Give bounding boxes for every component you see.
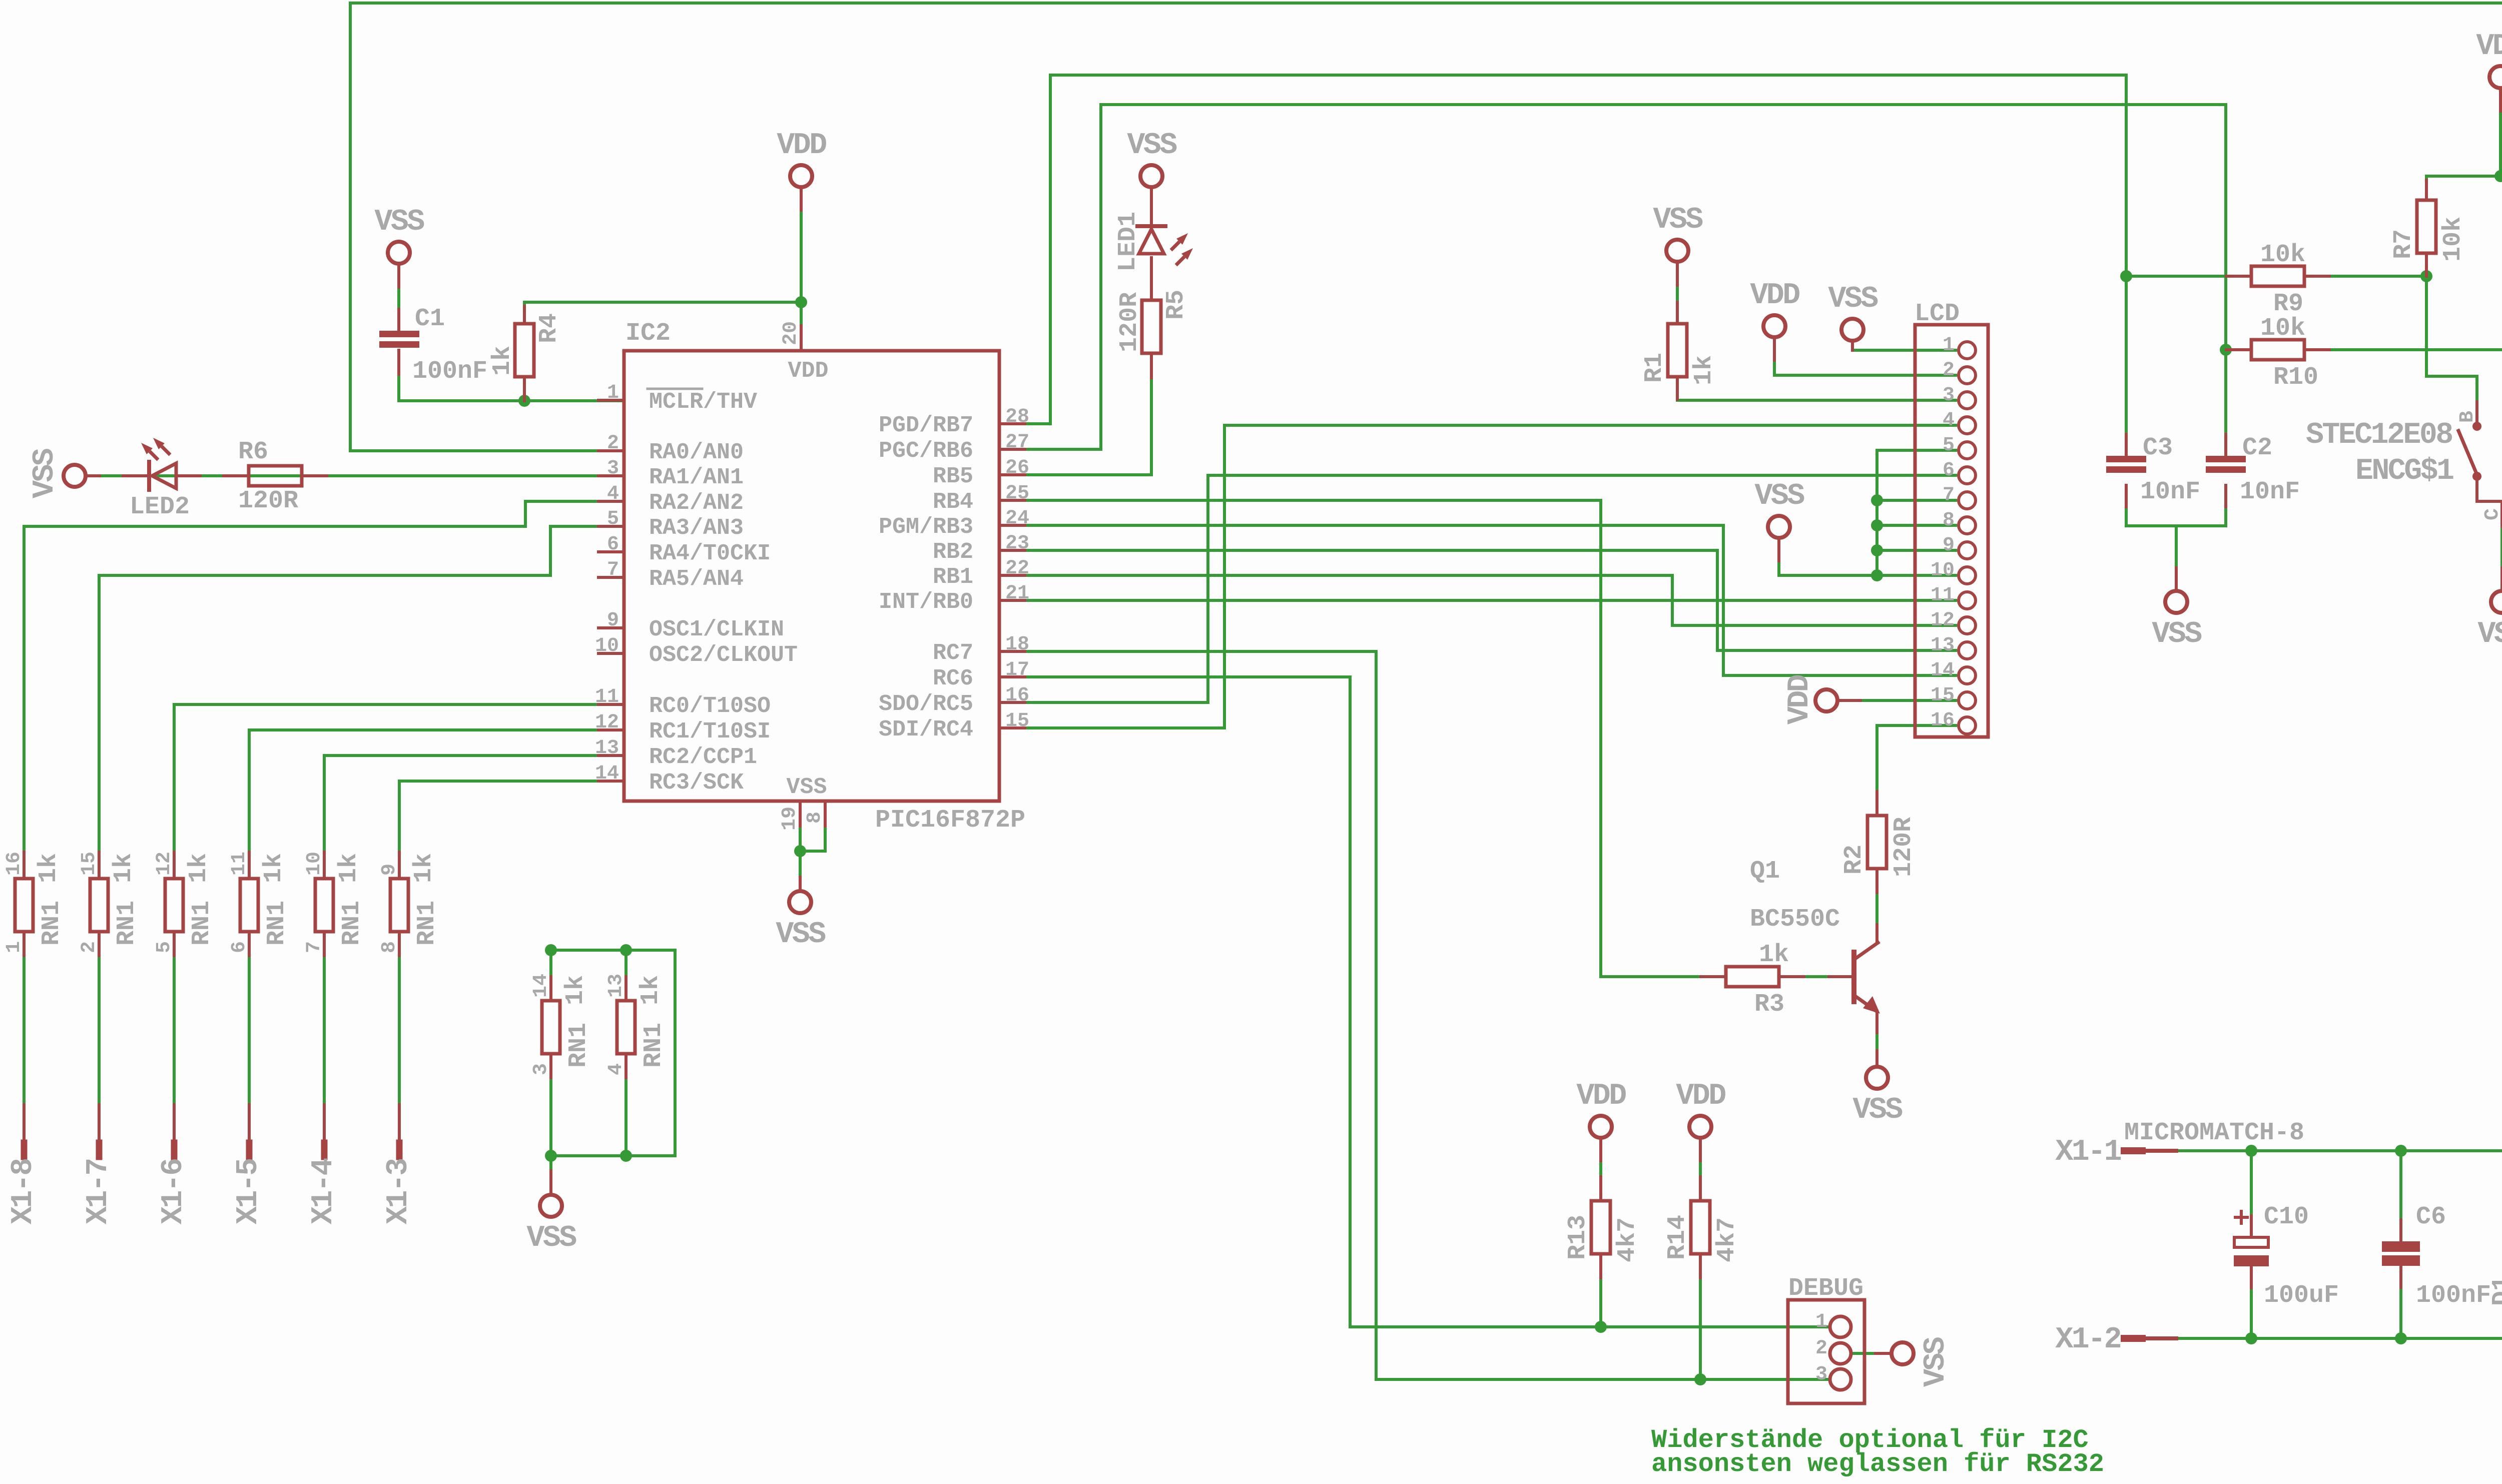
IC2 left pin stubs [598,399,624,402]
wire VSS to LCD pins 5-10 net [1779,540,1877,575]
wire R3 to Q1 base [1779,975,1851,978]
Q1 collector pin [1875,925,1879,943]
wire pin 23 RB2 to LCD pin 13 [1025,550,1956,650]
svg-text:1k: 1k [488,346,517,376]
R1 bottom pin [1676,377,1679,399]
wire pin 14 RC3 to RN1 pin 9 [399,781,600,879]
R9 left pin [2226,275,2251,278]
svg-text:RA0/AN0: RA0/AN0 [649,440,744,465]
resistor RN1 element 15-2 1k [90,879,108,932]
resistor RN1 element 14-3 1k [542,1001,560,1054]
svg-text:C3: C3 [2143,434,2173,462]
wire R2 to LCD pin 16 [1877,725,1956,792]
svg-text:R2: R2 [1840,845,1868,875]
LED1 emission arrows [1171,242,1179,250]
svg-text:11: 11 [595,686,619,708]
svg-text:RC7: RC7 [933,640,973,666]
junction RN1 3 bottom [545,1150,557,1162]
svg-text:10: 10 [595,635,619,657]
wire ENCG$1 C to VSS [2500,526,2502,589]
svg-text:7: 7 [607,559,619,581]
wire pin 15 SDI/RC4 to LCD pin 4 [1025,425,1956,728]
svg-text:7: 7 [1943,484,1955,507]
wire VDD to LCD pin 2 [1774,339,1956,375]
svg-text:13: 13 [1931,634,1955,657]
svg-text:VSS: VSS [786,775,827,800]
svg-text:4k7: 4k7 [1613,1217,1642,1262]
wire X1-2 VSS rail [2124,1266,2502,1338]
svg-text:1k: 1k [637,975,665,1005]
svg-text:6: 6 [1943,459,1955,482]
VSS pin stub R1 [1676,264,1679,285]
C6 bottom pin [2399,1266,2402,1287]
svg-text:RN1: RN1 [564,1023,593,1068]
svg-text:RC3/SCK: RC3/SCK [649,770,744,796]
junction LCD pin10 [1871,569,1883,581]
wire RN1 3/14 4/13 loop [551,950,675,1193]
svg-text:VDD: VDD [2476,30,2502,64]
svg-text:RA4/T0CKI: RA4/T0CKI [649,541,771,566]
svg-text:15: 15 [1931,684,1955,707]
svg-text:R7: R7 [2389,229,2418,259]
LED LED2 [147,462,151,490]
wire RN1 column 6 to X1 pin [398,932,401,1105]
svg-text:VDD: VDD [1783,675,1817,724]
junction VDD/R4/pin20 [795,296,807,308]
svg-text:PGC/RB6: PGC/RB6 [879,438,973,464]
supply VDD at R7/R8 [2489,66,2502,88]
svg-text:RB5: RB5 [933,464,973,489]
svg-text:VSS: VSS [1127,129,1177,163]
VSS pin stub LED1 [1150,189,1153,210]
resistor RN1 element 12-5 1k [165,879,183,932]
svg-text:RN1: RN1 [188,901,216,946]
resistor R14 4k7 [1691,1201,1710,1254]
Q1 base pin [1829,975,1851,978]
svg-text:6: 6 [228,941,251,953]
wire RN1 column 1 to X1 pin [23,932,26,1105]
svg-text:8: 8 [804,812,826,824]
R6 left pin [224,474,249,477]
LED LED1 [1137,224,1165,228]
svg-text:RN1: RN1 [640,1023,668,1068]
supply VDD at R13 [1590,1116,1612,1138]
svg-text:14: 14 [530,974,552,998]
R7 bottom pin [2425,255,2428,276]
wire to LCD pin 10 [1877,574,1956,577]
svg-text:1k: 1k [1690,355,1718,385]
junction LCD pin8 [1871,519,1883,531]
svg-text:ENCG$1: ENCG$1 [2355,454,2453,488]
svg-text:16: 16 [3,852,26,876]
svg-text:VSS: VSS [776,918,826,952]
wire VDD to R14 [1699,1140,1702,1201]
ENCG$1 common pin C [2500,501,2502,526]
LED1 top pin [1150,203,1153,225]
R3 right pin [1779,975,1804,978]
svg-text:RN1: RN1 [38,901,66,946]
R2 top pin [1875,792,1879,816]
svg-text:1k: 1k [561,975,590,1005]
svg-text:2: 2 [607,432,619,455]
svg-text:1: 1 [607,382,619,404]
junction C6 bottom [2395,1332,2407,1344]
capacitor C2 10nF [2206,456,2246,462]
supply VSS at R1 [1666,240,1688,262]
supply VSS at LCD pin 1 [1841,319,1863,341]
VDD pin stub LCD15 [1839,699,1860,702]
resistor R9 10k [2251,266,2304,286]
VSS pin stub LCD1 [1851,343,1854,350]
svg-text:9: 9 [1943,534,1955,557]
wire pin 17 RC6 to DEBUG pin 1 [1025,677,1829,1327]
svg-text:R14: R14 [1663,1215,1692,1260]
wire pin 22 RB1 to LCD pin 12 [1025,575,1956,625]
VDD pin stub R14 [1699,1140,1702,1161]
resistor R3 1k [1726,967,1779,987]
IC2 MCLR overline [648,388,702,390]
svg-text:120R: 120R [1115,292,1144,352]
svg-text:19: 19 [779,807,801,831]
svg-text:5: 5 [1943,434,1955,457]
R4 bottom pin [523,377,526,401]
resistor RN1 element 10-7 1k [315,879,333,932]
wire pin 26 RB5 to R5/LED1 [1025,354,1151,475]
svg-text:6: 6 [607,533,619,556]
svg-text:VDD: VDD [1576,1079,1626,1113]
resistor R5 120R [1142,300,1161,353]
wire R2 to Q1 collector [1875,869,1879,943]
svg-text:1k: 1k [110,853,138,883]
resistor R4 1k [515,324,534,377]
svg-text:X1-3: X1-3 [382,1159,416,1224]
junction C2/R10 [2220,344,2232,356]
R6 right pin [302,474,327,477]
svg-text:RB2: RB2 [933,539,973,565]
svg-text:VSS: VSS [526,1221,576,1255]
supply VSS at Q1 emitter [1866,1067,1888,1089]
svg-text:RB4: RB4 [933,489,973,515]
C2 top pin [2224,434,2227,457]
VSS pin stub LED2 [88,474,100,477]
wire pin 28 PGD/RB7 to R9/C3 [1025,75,2126,457]
LED2 anode pin [123,474,148,477]
pin 8 stub [824,801,827,826]
junction C10 top [2245,1145,2257,1157]
svg-text:RN1: RN1 [338,901,366,946]
connector LCD pads [1959,342,1976,359]
R9 right pin [2304,275,2329,278]
svg-text:RA2/AN2: RA2/AN2 [649,490,744,516]
junction RN1 4 bottom [620,1150,632,1162]
R13 top pin [1599,1177,1602,1201]
wire C3 net to R9 [2126,275,2226,278]
svg-text:1k: 1k [335,853,363,883]
wire rail to C6 top [2399,1151,2402,1241]
R13 bottom pin [1599,1254,1602,1278]
svg-text:VSS: VSS [28,448,62,498]
connector LCD body [1915,325,1988,737]
R1 top pin [1676,302,1679,324]
switch ENCG$1 STEC12E08 [2472,422,2481,431]
R4 top pin [523,306,526,324]
capacitor C1 100nF [379,331,419,337]
R2 bottom pin [1875,869,1879,893]
svg-text:10nF: 10nF [2240,478,2300,506]
R10 right pin [2304,348,2329,351]
svg-text:14: 14 [595,763,619,785]
ENCG$1 B pin [2475,402,2478,426]
svg-text:16: 16 [1005,684,1029,707]
svg-text:17: 17 [1005,659,1029,681]
svg-text:14: 14 [1931,659,1955,682]
svg-text:VSS: VSS [2152,617,2202,651]
svg-text:26: 26 [1005,457,1029,479]
svg-text:DEBUG: DEBUG [1788,1274,1863,1303]
svg-text:120R: 120R [238,487,298,515]
supply VDD at R14 [1689,1116,1711,1138]
resistor R2 120R [1867,816,1887,869]
connector DEBUG body [1788,1300,1864,1403]
svg-text:R5: R5 [1162,290,1190,320]
svg-text:10k: 10k [2260,241,2305,269]
VSS pin stub DEBUG [1875,1352,1890,1355]
svg-text:ansonsten weglassen für RS232: ansonsten weglassen für RS232 [1651,1449,2104,1479]
wire VSS-LED2-R6 to IC pin 3 [88,474,624,477]
svg-text:20: 20 [780,321,802,345]
svg-text:23: 23 [1005,532,1029,555]
resistor R13 4k7 [1591,1201,1610,1254]
svg-text:VSS: VSS [374,205,424,239]
R5 bottom pin [1150,354,1153,378]
svg-text:8: 8 [378,941,401,953]
svg-text:9: 9 [607,609,619,632]
svg-text:PIC16F872P: PIC16F872P [875,806,1025,835]
LED2 emission arrows [150,451,158,460]
svg-text:1k: 1k [185,853,213,883]
svg-text:RN1: RN1 [113,901,141,946]
svg-text:MCLR/THV: MCLR/THV [649,389,757,415]
junction C10 bottom [2245,1332,2257,1344]
supply VSS at ENCG$1 [2491,591,2502,613]
svg-text:12: 12 [153,852,176,876]
junction pin19/pin8 VSS [794,845,806,857]
wire IC pin 8 to VSS net [800,826,825,851]
svg-text:1k: 1k [35,853,63,883]
supply VSS at RN1 3/4 [540,1195,562,1217]
svg-text:RB1: RB1 [933,564,973,590]
junction C3/R9 [2120,270,2132,282]
wire VSS to LED1 [1150,189,1153,225]
wire R1 to LCD pin 3 [1677,377,1956,400]
supply VSS near C1 [388,242,410,264]
VSS pin stub Q1 [1875,1051,1879,1065]
svg-text:10k: 10k [2260,314,2305,343]
svg-text:VSS: VSS [1653,203,1703,237]
RN1 resistor pins [23,852,26,879]
supply VSS at DEBUG [1892,1342,1914,1364]
svg-text:1: 1 [1943,334,1955,357]
svg-text:PGD/RB7: PGD/RB7 [879,413,973,438]
wire VSS to LCD pin 1 [1852,343,1956,350]
wire X1-1 VDD rail [2124,1151,2502,1241]
svg-text:15: 15 [78,852,101,876]
svg-text:4: 4 [605,1063,628,1075]
svg-text:IC2: IC2 [625,319,671,348]
C3 bottom pin [2125,485,2128,507]
junction LCD pin7 [1871,494,1883,506]
svg-text:3: 3 [1815,1363,1827,1386]
svg-text:PGM/RB3: PGM/RB3 [879,514,973,540]
svg-text:10: 10 [303,852,326,876]
svg-text:11: 11 [1931,584,1955,607]
resistor RN1 element 16-1 1k [15,879,33,932]
wire RN1 3 bottom [549,1054,552,1156]
C6 top pin [2399,1220,2402,1241]
VSS pin stub [397,266,400,287]
svg-text:X1-8: X1-8 [7,1159,41,1224]
svg-text:OSC2/CLKOUT: OSC2/CLKOUT [649,642,798,668]
C1 top pin [397,309,400,331]
wire pin 5 RA3 to RN1 pin 15 [99,526,600,879]
resistor RN1 element 11-6 1k [240,879,258,932]
junction C6 top [2395,1145,2407,1157]
svg-text:21: 21 [1005,582,1029,605]
svg-text:RC1/T10SI: RC1/T10SI [649,719,771,745]
wire pin 12 RC1 to RN1 pin 11 [249,730,600,879]
svg-text:12: 12 [1931,609,1955,632]
svg-text:100nF: 100nF [2416,1281,2491,1310]
svg-text:X1-5: X1-5 [232,1159,266,1224]
wire pin 27 PGC/RB6 to R10/C2 [1025,105,2226,457]
svg-text:C6: C6 [2416,1203,2446,1231]
junction R13/DEBUG1 [1595,1321,1607,1333]
svg-text:4: 4 [607,483,619,505]
VSS pin stub IC [799,877,802,889]
svg-text:RC0/T10SO: RC0/T10SO [649,693,771,719]
wire pin 4 RA2 to RN1 pin 16 [24,501,600,879]
svg-text:VDD: VDD [777,129,826,163]
svg-text:RA5/AN4: RA5/AN4 [649,566,744,592]
wire RN1 column 3 to X1 pin [173,932,176,1105]
wire VSS to C1 [397,266,400,331]
VSS pin stub RN1 [549,1171,552,1193]
junction RN1 14 top [545,944,557,956]
VSS pin stub LCD bus [1777,540,1780,561]
wire R14 to DEBUG pin 3 net [1699,1254,1702,1379]
svg-text:27: 27 [1005,431,1029,454]
svg-text:5: 5 [607,508,619,530]
svg-text:VSS: VSS [1754,479,1804,513]
VSS pin stub C3C2 [2175,568,2178,589]
svg-text:LCD: LCD [1915,300,1960,328]
junction VDD/R7/R8 [2494,170,2502,182]
wire R13 to DEBUG pin 1 net [1599,1254,1602,1327]
C10 top pin [2250,1216,2253,1237]
wire RN1 column 4 to X1 pin [248,932,251,1105]
wire to LCD pin 7 [1877,499,1956,502]
svg-text:100uF: 100uF [2264,1281,2339,1310]
wire Q1 emitter to VSS [1875,1011,1879,1065]
wire RN1 column 5 to X1 pin [323,932,326,1105]
svg-text:R1: R1 [1640,353,1669,383]
R3 left pin [1701,975,1726,978]
resistor RN1 element 13-4 1k [617,1001,635,1054]
svg-text:SDO/RC5: SDO/RC5 [879,691,973,717]
wire pin 11 RC0 to RN1 pin 12 [174,704,600,879]
Q1 emitter pin [1875,1011,1879,1033]
svg-text:VDD: VDD [1750,279,1799,313]
connector DEBUG pads [1830,1316,1851,1337]
svg-text:X1-7: X1-7 [82,1159,116,1224]
svg-text:BC550C: BC550C [1750,905,1840,934]
resistor RN1 element 9-8 1k [390,879,408,932]
C10 bottom pin [2250,1266,2253,1288]
svg-text:9: 9 [378,864,401,876]
resistor R10 10k [2251,340,2304,360]
junction LCD pin9 [1871,544,1883,556]
svg-text:C2: C2 [2242,434,2272,462]
resistor R7 10k [2417,200,2436,253]
LED2 cathode pin [176,474,200,477]
svg-text:1k: 1k [410,853,438,883]
svg-text:Q1: Q1 [1750,857,1780,886]
supply VSS at IC pins 19/8 [789,891,811,913]
wire pin 21 INT/RB0 to LCD pin 11 [1025,599,1956,602]
svg-text:RN1: RN1 [263,901,291,946]
junction RN1 13 top [620,944,632,956]
wire R10 to R8 bottom [2329,348,2502,351]
X1-2 connector pin [2124,1336,2176,1340]
svg-text:8: 8 [1943,509,1955,532]
pin 19 stub [799,801,802,826]
wire IC pin 19 to VSS [799,826,802,889]
svg-text:VDD: VDD [1676,1079,1725,1113]
capacitor C6 100nF [2382,1241,2420,1252]
svg-text:LED2: LED2 [130,493,190,521]
svg-text:2: 2 [1815,1337,1827,1360]
svg-text:D1: D1 [2488,1276,2502,1306]
wire DEBUG pin 2 to VSS [1851,1352,1890,1355]
svg-text:13: 13 [605,974,628,998]
X1-1 connector pin [2124,1149,2176,1153]
svg-text:RC6: RC6 [933,666,973,691]
svg-text:2: 2 [1943,359,1955,382]
capacitor C10 100uF polarized [2234,1237,2268,1247]
wire VDD to LCD pin 15 [1839,699,1956,702]
wire pin 13 RC2 to RN1 pin 10 [324,756,600,879]
wire to LCD pin 9 [1877,549,1956,552]
svg-text:INT/RB0: INT/RB0 [879,589,973,615]
svg-text:R13: R13 [1564,1215,1592,1260]
svg-text:VSS: VSS [1919,1337,1953,1387]
wire pin 18 RC7 to DEBUG pin 3 [1025,651,1829,1379]
svg-text:10nF: 10nF [2140,478,2200,506]
svg-text:3: 3 [607,457,619,480]
capacitor C3 10nF [2106,456,2146,462]
supply VSS at LED1 [1140,165,1162,187]
junction R7/R9 [2420,270,2432,282]
wire R7/R8 top rail [2426,175,2502,178]
svg-text:1k: 1k [260,853,288,883]
wire RN1 4 bottom [624,1054,628,1156]
svg-text:1k: 1k [1759,941,1789,969]
resistor R1 1k [1668,324,1687,377]
svg-text:VDD: VDD [788,358,828,384]
wire to R7 [2425,176,2428,200]
svg-text:1: 1 [3,941,26,953]
wire C10 bottom to rail [2250,1266,2253,1338]
